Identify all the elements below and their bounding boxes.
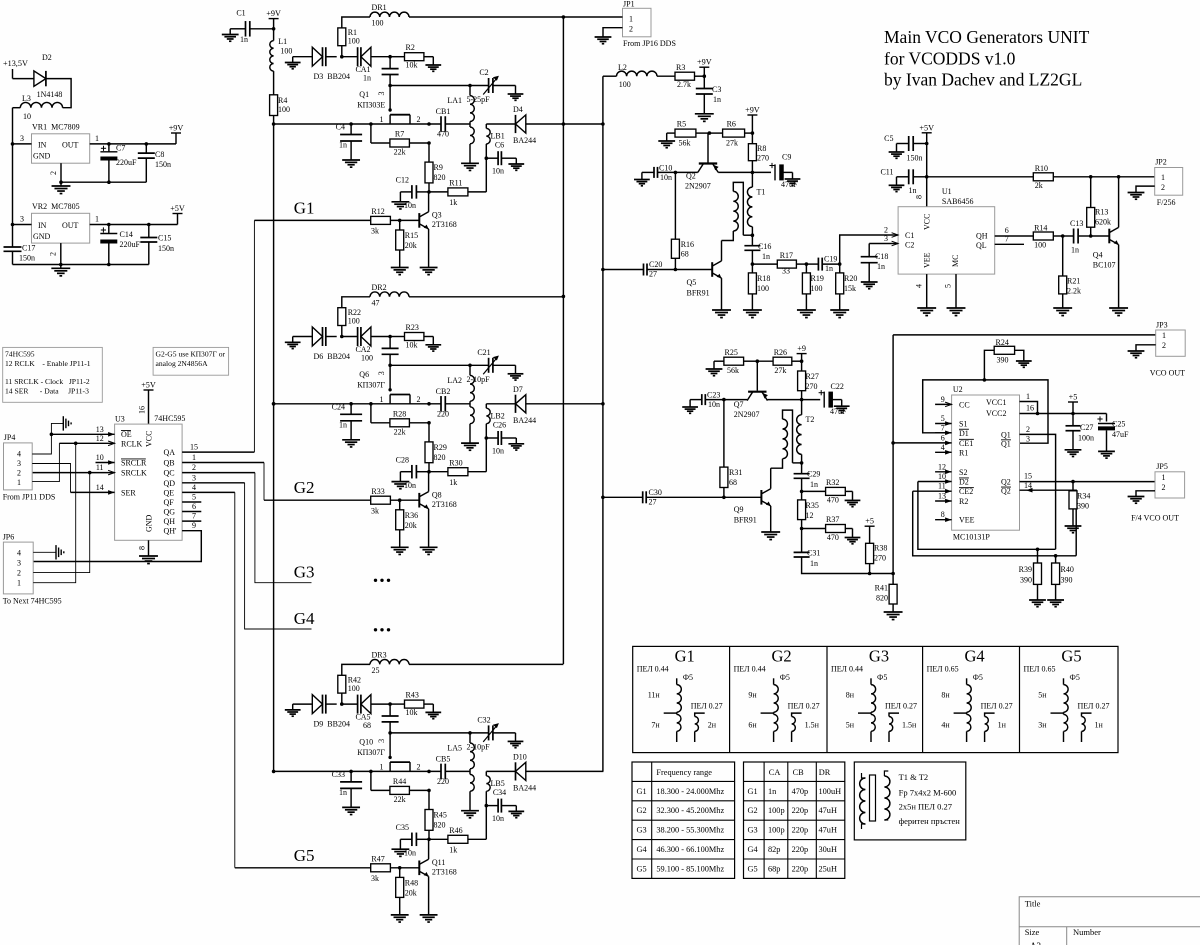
svg-text:100: 100 (757, 284, 769, 293)
label VCO OUT (1150, 369, 1185, 378)
svg-text:20k: 20k (405, 241, 417, 250)
label D2 (37, 53, 63, 99)
node C15 junction (147, 223, 151, 227)
svg-text:470: 470 (827, 533, 839, 542)
ground sideways at JP6 (56, 545, 64, 559)
label C29 (807, 470, 820, 490)
node D6-R22 junction (340, 335, 344, 339)
resistor R27 (798, 361, 806, 399)
svg-text:27: 27 (649, 498, 657, 507)
svg-text:32.300 - 45.200Mhz: 32.300 - 45.200Mhz (656, 806, 724, 815)
inductor L3 (20, 102, 62, 107)
svg-text:+9V: +9V (266, 9, 281, 18)
svg-text:CB: CB (793, 768, 805, 777)
pin 14 of U3 (71, 483, 115, 495)
svg-text:R10: R10 (1035, 164, 1048, 173)
ground at R24 (1016, 361, 1032, 367)
svg-text:2: 2 (417, 115, 421, 124)
node R24 loop junction (983, 378, 987, 382)
node JP1 bus junction (562, 15, 566, 19)
svg-text:5н: 5н (1038, 691, 1047, 700)
svg-text:5: 5 (192, 493, 196, 502)
svg-text:68: 68 (681, 250, 689, 259)
table coil G2 sec turns (805, 721, 820, 730)
label C26 (492, 420, 506, 455)
wire input rail down (13, 108, 21, 225)
node VR1 input junction (11, 142, 15, 146)
svg-text:R43: R43 (406, 690, 419, 699)
svg-text:VCC: VCC (923, 214, 932, 230)
svg-text:C34: C34 (493, 788, 506, 797)
svg-text:R25: R25 (725, 348, 738, 357)
svg-text:LA5: LA5 (447, 743, 462, 752)
label R17 (780, 251, 793, 276)
svg-text:1n: 1n (713, 95, 721, 104)
svg-text:3: 3 (17, 459, 21, 468)
ground at C18 (861, 282, 878, 289)
svg-text:47uH: 47uH (819, 826, 837, 835)
resistor R24 (0, 0, 1024, 380)
svg-text:8н: 8н (941, 691, 950, 700)
label C20 (649, 260, 662, 279)
label R25 (725, 348, 740, 375)
diode D7 (486, 395, 526, 413)
svg-text:1: 1 (380, 115, 384, 124)
table cell G2 wire label (734, 665, 790, 683)
svg-text:R2: R2 (406, 43, 415, 52)
svg-text:C20: C20 (649, 260, 662, 269)
node C1 +9V junction (272, 27, 276, 31)
svg-text:7: 7 (192, 512, 196, 521)
ground at C3 (695, 114, 714, 122)
svg-text:2T3168: 2T3168 (432, 867, 457, 876)
svg-text:2N2907: 2N2907 (685, 182, 711, 191)
svg-text:R1: R1 (959, 448, 968, 457)
label G5 (294, 846, 315, 865)
resistor R28 (0, 0, 429, 427)
node busA G2 junction (562, 295, 566, 299)
label R15 (405, 231, 418, 250)
svg-text:82p: 82p (768, 845, 780, 854)
svg-text:CB2: CB2 (436, 387, 451, 396)
svg-text:G1: G1 (637, 787, 647, 796)
svg-text:D6 BB204: D6 BB204 (314, 352, 350, 361)
svg-text:3k: 3k (371, 506, 379, 515)
wire gate node to tank (390, 732, 489, 734)
svg-text:220p: 220p (792, 864, 809, 873)
table cell G5 header (1061, 647, 1081, 666)
svg-text:G5: G5 (294, 846, 315, 865)
label From JP11 DDS (3, 493, 56, 502)
svg-text:1n: 1n (877, 262, 885, 271)
node Q9 base junction (722, 496, 726, 500)
svg-text:To Next 74HC595: To Next 74HC595 (3, 597, 62, 606)
svg-text:CB5: CB5 (436, 754, 451, 763)
svg-text:47: 47 (372, 298, 380, 307)
svg-text:JP5: JP5 (1156, 462, 1168, 471)
pin 5 of U2 (935, 414, 952, 426)
svg-text:CE1: CE1 (959, 439, 973, 448)
ground at C21 (508, 374, 524, 380)
connector JP5 (1155, 472, 1185, 498)
label Q1 (357, 90, 385, 110)
ground at C5 (889, 152, 905, 158)
svg-text:by Ivan Dachev and LZ2GL: by Ivan Dachev and LZ2GL (884, 70, 1082, 90)
svg-text:Q1: Q1 (1001, 430, 1011, 439)
capacitor C20 27 (603, 264, 676, 276)
svg-text:10n: 10n (708, 400, 720, 409)
label R47 (371, 854, 385, 883)
svg-text:3k: 3k (371, 874, 379, 883)
transistor Q11 (419, 859, 428, 876)
wire JP1 pin2 to ground (603, 28, 623, 37)
component row G5 (748, 864, 837, 873)
label C24 (332, 402, 347, 429)
wire D4 cathode to output bus (526, 123, 604, 125)
label R48 (405, 878, 418, 897)
wire JP4 pin3 to SER (32, 464, 70, 493)
svg-text:10n: 10n (492, 814, 504, 823)
label C18 (875, 252, 888, 271)
wire Q7 emitter wire (768, 399, 802, 401)
ground at R37 (845, 538, 861, 544)
svg-text:D10: D10 (513, 752, 527, 761)
node C7 junction (107, 142, 111, 146)
svg-text:68: 68 (363, 721, 371, 730)
svg-text:27k: 27k (726, 139, 738, 148)
svg-text:470: 470 (827, 496, 839, 505)
label U3 VCC (145, 431, 154, 447)
svg-text:Q1: Q1 (359, 90, 369, 99)
label D3 (314, 72, 350, 81)
svg-text:1: 1 (1162, 331, 1166, 340)
wire G2 select (263, 463, 265, 501)
label Q10 (357, 737, 385, 757)
svg-text:3: 3 (884, 234, 888, 243)
label C33 (332, 770, 347, 797)
power +5 at U2 (1068, 393, 1078, 414)
pin 1 of VR2 (90, 215, 178, 225)
label R16 (681, 240, 694, 259)
wire G4 select (245, 483, 312, 629)
resistor R46 (0, 0, 486, 843)
svg-text:3: 3 (377, 371, 386, 375)
capacitor C25 47uF (1097, 414, 1115, 451)
svg-text:VEE: VEE (959, 516, 975, 525)
table cell %s sec wire (691, 702, 723, 711)
svg-text:Number: Number (1073, 927, 1101, 937)
svg-text:L2: L2 (618, 63, 627, 72)
svg-text:100: 100 (348, 37, 360, 46)
pin 6 of U2 (893, 433, 952, 445)
svg-text:R30: R30 (449, 458, 462, 467)
svg-text:Q11: Q11 (432, 858, 445, 867)
label Q3 (432, 211, 457, 230)
svg-text:16: 16 (1026, 404, 1034, 413)
transistor Q2 2N2907 (698, 133, 719, 172)
label G1 (294, 198, 315, 217)
svg-text:220p: 220p (792, 826, 809, 835)
svg-text:2N2907: 2N2907 (734, 410, 760, 419)
pin 3 of U3 QD (182, 473, 245, 483)
pin 9 of U2 (935, 395, 952, 407)
svg-text:ПЕЛ 0.27: ПЕЛ 0.27 (885, 702, 917, 711)
ground at C12 (391, 202, 409, 209)
resistor R15 (396, 220, 404, 267)
label U2 R1 (959, 448, 968, 457)
wire JP6 pin4 to ground (33, 551, 56, 553)
svg-text:15: 15 (1024, 472, 1032, 481)
ground at Q3 emitter (420, 268, 438, 275)
wire D10 cathode to output bus (526, 770, 604, 772)
svg-text:BFR91: BFR91 (687, 289, 710, 298)
pin 4 of U1 (915, 274, 927, 307)
ground at R48 (391, 915, 409, 922)
label L1 (278, 37, 292, 56)
svg-text:CC: CC (959, 400, 970, 409)
wire C18 to U1 pin3 (869, 243, 898, 245)
ground at C2 (508, 94, 524, 100)
pin 1 of U3 QB (182, 453, 264, 463)
node LB2-C26 junction (485, 436, 489, 440)
frequency table header (656, 768, 712, 777)
node C28-R30 junction (427, 470, 431, 474)
diode D4 (486, 115, 526, 133)
svg-text:LB2: LB2 (491, 411, 505, 420)
svg-text:100: 100 (348, 684, 360, 693)
svg-text:+9V: +9V (169, 124, 184, 133)
svg-text:QE: QE (164, 488, 175, 497)
node LB1-C6 junction (485, 156, 489, 160)
svg-text:G2-G5 use КП307Г or: G2-G5 use КП307Г or (156, 350, 226, 359)
capacitor C26 (486, 431, 516, 445)
svg-text:VCC: VCC (145, 431, 154, 447)
table coil G4 sec turns (998, 721, 1007, 730)
label C22 (830, 382, 847, 416)
resistor R39 (1034, 549, 1042, 599)
node bus G2 rail junction (272, 402, 276, 406)
svg-text:R12: R12 (371, 207, 384, 216)
resistor R40 (1052, 556, 1060, 600)
label R43 (406, 690, 419, 717)
table cell G1 wire label (637, 665, 693, 683)
svg-text:LA2: LA2 (447, 376, 462, 385)
svg-text:D9 BB204: D9 BB204 (314, 719, 350, 728)
svg-text:for VCODDS v1.0: for VCODDS v1.0 (884, 49, 1016, 69)
inductor LA1 (470, 86, 474, 163)
power +9V at C1 (266, 9, 281, 29)
svg-text:R20: R20 (844, 274, 857, 283)
svg-text:15k: 15k (844, 284, 856, 293)
svg-text:R11: R11 (449, 179, 462, 188)
wire Q3 emitter to ground (428, 229, 430, 267)
svg-text:9: 9 (192, 521, 196, 530)
wire JP3 riser (892, 335, 894, 574)
svg-text:QH': QH' (164, 527, 178, 536)
ground at R5 (658, 141, 675, 148)
note text G2-G5 (156, 350, 226, 369)
node R44-R45 junction (427, 789, 431, 793)
transformer T2 secondary left (771, 410, 793, 468)
svg-text:10k: 10k (406, 340, 418, 349)
label G2 (294, 478, 315, 497)
node Q2 emitter junction (674, 171, 678, 175)
component row G3 (748, 826, 837, 835)
svg-text:2: 2 (629, 25, 633, 34)
node R38 bottom junction (868, 572, 872, 576)
label U3 SER (121, 488, 136, 497)
svg-text:Q1: Q1 (1001, 439, 1011, 448)
svg-text:DR1: DR1 (372, 3, 387, 12)
IC U2 MC10131P (952, 395, 1020, 530)
svg-text:12 RCLK - Enable JP11-1: 12 RCLK - Enable JP11-1 (5, 359, 91, 368)
IC U3 74HC595 (115, 424, 183, 540)
label C19 (824, 255, 837, 274)
svg-text:ПЕЛ 0.65: ПЕЛ 0.65 (1024, 665, 1056, 674)
resistor R18 (748, 264, 756, 309)
capacitor C35 (400, 833, 429, 849)
svg-text:ПЕЛ 0.44: ПЕЛ 0.44 (831, 665, 863, 674)
transistor Q8 (419, 492, 428, 509)
node tank top junction (468, 731, 472, 735)
svg-text:820: 820 (434, 173, 446, 182)
wire Q4 collector (1118, 177, 1120, 228)
svg-text:U3: U3 (115, 415, 125, 424)
node C35-R46 junction (427, 838, 431, 842)
svg-text:1n: 1n (339, 420, 347, 429)
wire source rail (274, 770, 441, 772)
label U3 (115, 414, 185, 424)
label T1 (757, 188, 766, 197)
ground at U3 (139, 556, 158, 564)
node D9-R42 junction (340, 702, 344, 706)
node C27 junction (1071, 412, 1075, 416)
svg-text:C15: C15 (158, 234, 171, 243)
svg-text:Q5: Q5 (687, 278, 697, 287)
svg-text:R23: R23 (406, 323, 419, 332)
ellipsis G4 (374, 628, 390, 631)
label Q11 (432, 858, 457, 877)
svg-text:C31: C31 (807, 549, 820, 558)
svg-text:R35: R35 (806, 501, 819, 510)
svg-text:470p: 470p (792, 787, 809, 796)
svg-text:1n: 1n (810, 480, 818, 489)
node R17 R19 junction (805, 262, 809, 266)
capacitor C4 (340, 124, 362, 160)
label Q9 (734, 505, 757, 525)
svg-text:C10: C10 (659, 164, 672, 173)
label F/4 VCO OUT (1131, 514, 1179, 523)
svg-text:C2: C2 (479, 68, 488, 77)
pin 8 of U2 (935, 510, 952, 522)
capacitor C27 100n (1066, 414, 1081, 450)
capacitor CB5 (441, 764, 470, 780)
label G4 (294, 609, 315, 628)
svg-text:1n: 1n (762, 252, 770, 261)
ground at U1 pin5 (947, 308, 966, 316)
node gate coupling junction (388, 55, 392, 59)
svg-text:12: 12 (96, 434, 104, 443)
svg-text:QC: QC (164, 469, 175, 478)
label R46 (449, 826, 462, 855)
capacitor C11 1n (897, 169, 927, 185)
wire D6 to R node (326, 336, 337, 338)
svg-text:2.7k: 2.7k (677, 80, 691, 89)
resistor R33 (0, 0, 419, 504)
svg-text:+13,5V: +13,5V (3, 59, 28, 68)
table cell %s sec wire (885, 702, 917, 711)
resistor R34 (1069, 482, 1077, 526)
label R41 (875, 584, 888, 603)
component table header (769, 768, 831, 777)
svg-text:A3: A3 (1030, 941, 1041, 945)
wire JP1 pin1 (563, 16, 622, 18)
svg-text:OUT: OUT (62, 141, 79, 150)
pin 15 of U2 (1020, 472, 1156, 482)
wire R1 top to DR1 (342, 17, 370, 28)
svg-text:C2: C2 (905, 241, 914, 250)
table coil G1 secondary (695, 713, 705, 742)
pin 3 of VR1 (13, 134, 32, 144)
label R3 (676, 63, 691, 89)
svg-text:Ф5: Ф5 (1070, 673, 1080, 682)
pin 7 of U3 QH (182, 512, 201, 522)
ground at C35 (391, 849, 409, 856)
resistor R8 (748, 133, 756, 172)
wire R5 to ground (666, 133, 668, 140)
node R5 R6 junction (708, 131, 712, 135)
pin 3 of Q10 (377, 739, 386, 743)
svg-text:4: 4 (17, 548, 21, 557)
svg-text:1n: 1n (1071, 246, 1079, 255)
svg-text:Q9: Q9 (734, 505, 744, 514)
wire Q1 to D2 loop (918, 482, 1056, 550)
label C30 (649, 488, 662, 507)
wire JP3 pin2 to ground (1128, 345, 1156, 358)
svg-text:R44: R44 (393, 777, 406, 786)
svg-text:G5: G5 (1061, 647, 1081, 666)
svg-text:G4: G4 (637, 845, 648, 854)
label C6 (492, 141, 504, 176)
svg-text:R38: R38 (874, 544, 887, 553)
ground at C9 (785, 179, 801, 185)
svg-text:R8: R8 (757, 144, 766, 153)
label C21 (466, 348, 490, 384)
svg-text:C32: C32 (477, 715, 490, 724)
svg-text:C14: C14 (120, 230, 133, 239)
label U3 SRCLK (121, 469, 147, 478)
node C16 R18 junction (751, 262, 755, 266)
svg-text:G2: G2 (637, 806, 647, 815)
ground at C24 (342, 440, 360, 447)
resistor R4 (270, 95, 278, 124)
node C19 R20 junction (838, 262, 842, 266)
wire G5 select (234, 492, 236, 867)
svg-text:DR2: DR2 (372, 283, 387, 292)
svg-text:VR1 MC7809: VR1 MC7809 (32, 123, 80, 132)
svg-text:5: 5 (941, 414, 945, 423)
label R34 (1077, 492, 1090, 511)
label R24 (996, 338, 1009, 365)
svg-text:1: 1 (17, 478, 21, 487)
wire gate node to tank (390, 85, 489, 87)
label R2 (406, 43, 418, 70)
label R1 (348, 28, 360, 46)
svg-text:BA244: BA244 (513, 136, 536, 145)
ground at C1 (222, 29, 239, 41)
label R19 (811, 274, 824, 293)
transformer note text (899, 772, 961, 826)
